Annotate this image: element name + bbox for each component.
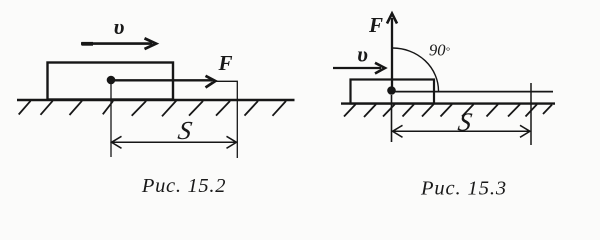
extension line below dot [110,84,112,157]
extension line from F tip to dimension [215,81,237,158]
svg-text:F: F [368,13,383,37]
force arrow F [111,76,215,88]
application point dot [387,86,396,95]
block (sliding body) [351,80,435,104]
ground hatching [344,104,552,117]
svg-text:Рис. 15.2: Рис. 15.2 [141,175,226,197]
90 degree arc [393,48,439,91]
dimension line S with arrowheads [392,125,530,137]
svg-text:Рис. 15.3: Рис. 15.3 [420,178,507,200]
extension line right (at S end) [530,83,532,145]
dimension line S with arrowheads [111,136,237,148]
velocity arrow v [81,38,156,49]
line from dot to the right (slab top) [392,91,554,93]
block (sliding body) [48,63,174,100]
svg-text:υ: υ [357,42,368,67]
application point dot [107,76,116,85]
svg-text:F: F [217,51,232,75]
svg-text:υ: υ [114,14,125,39]
ground line [17,99,295,102]
ground line [341,102,555,104]
velocity arrow v [333,63,385,74]
extension line below dot [391,95,393,142]
force arrow F (vertical) [387,14,397,91]
ground hatching [19,101,286,117]
